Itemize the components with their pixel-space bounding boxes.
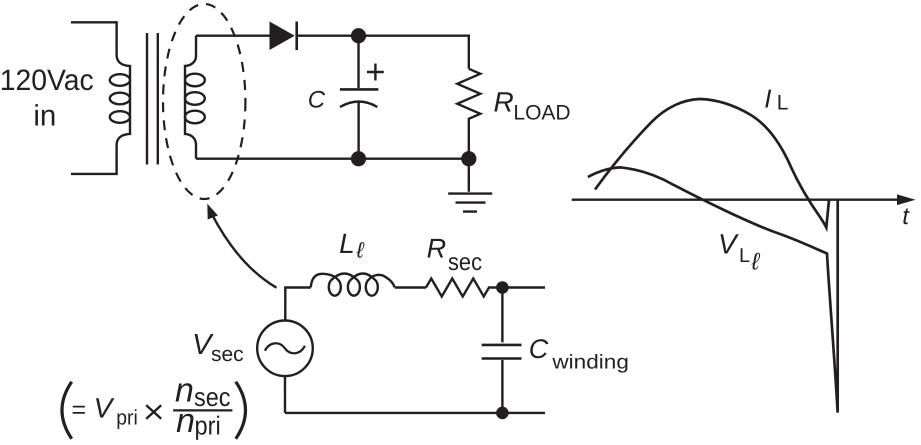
svg-text:L: L — [739, 245, 750, 267]
svg-text:n: n — [176, 402, 195, 440]
svg-text:120Vac: 120Vac — [0, 64, 94, 97]
svg-text:sec: sec — [448, 249, 482, 276]
svg-text:R: R — [494, 87, 514, 118]
svg-text:C: C — [529, 334, 549, 364]
svg-text:=: = — [71, 396, 86, 424]
svg-text:pri: pri — [116, 406, 138, 429]
svg-text:pri: pri — [194, 410, 220, 440]
svg-text:C: C — [308, 86, 326, 113]
svg-text:in: in — [33, 99, 56, 132]
svg-text:sec: sec — [194, 382, 231, 412]
svg-text:V: V — [94, 392, 115, 423]
svg-text:LOAD: LOAD — [513, 102, 570, 125]
svg-text:winding: winding — [551, 352, 629, 374]
svg-text:ℓ: ℓ — [750, 248, 760, 275]
svg-text:V: V — [718, 229, 739, 260]
svg-text:R: R — [427, 234, 447, 264]
svg-text:L: L — [339, 228, 355, 259]
svg-text:I: I — [764, 83, 771, 113]
svg-text:sec: sec — [211, 343, 244, 366]
svg-text:t: t — [902, 203, 910, 230]
svg-text:L: L — [777, 92, 789, 115]
svg-text:ℓ: ℓ — [355, 237, 364, 262]
